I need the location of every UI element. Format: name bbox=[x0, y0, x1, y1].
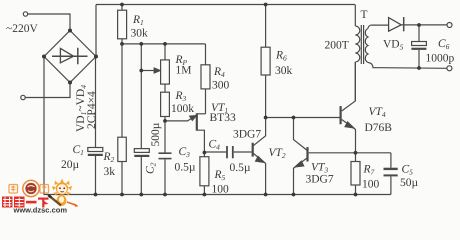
watermark mascot head rays bbox=[52, 179, 72, 196]
capacitor C6 bbox=[418, 25, 420, 41]
resistor R4 bbox=[205, 44, 207, 65]
resistor R6 bbox=[265, 5, 267, 48]
node R6 top bus bbox=[264, 3, 268, 7]
resistor R7 bbox=[355, 153, 357, 162]
wire VT3 base row y152.8 bbox=[309, 152, 391, 154]
wire collector row y117.5 bbox=[266, 117, 341, 119]
node R5 ground bbox=[203, 193, 207, 197]
svg-text:100k: 100k bbox=[171, 103, 194, 115]
node VT2 collector bbox=[264, 116, 268, 120]
wire bridge minus down to bottom bus bbox=[43, 57, 45, 195]
svg-text:3DG7: 3DG7 bbox=[233, 129, 261, 141]
top bus wire bbox=[96, 4, 355, 6]
svg-text:0.5µ: 0.5µ bbox=[175, 162, 196, 174]
resistor R3 bbox=[161, 92, 170, 116]
node bridge DC minus bbox=[42, 55, 46, 59]
svg-text:www.dzsc.com: www.dzsc.com bbox=[13, 206, 68, 215]
wire AC bottom to bridge bbox=[25, 84, 70, 98]
node VT1 B1 R5 C4 bbox=[203, 151, 207, 155]
svg-text:2CP4×4: 2CP4×4 bbox=[86, 91, 98, 129]
watermark mascot pen bbox=[50, 197, 61, 206]
svg-text:D76B: D76B bbox=[365, 122, 393, 134]
svg-text:1000p: 1000p bbox=[426, 53, 455, 65]
terminal out bottom bbox=[447, 66, 452, 71]
potentiometer RP bbox=[164, 44, 166, 60]
node C6 bottom bbox=[417, 66, 421, 70]
node R1 top bus bbox=[120, 3, 124, 7]
node bridge DC plus bbox=[94, 55, 98, 59]
watermark mascot face bbox=[56, 182, 68, 194]
node C6 top bbox=[417, 23, 421, 27]
transistor VT4 D76B bbox=[340, 106, 342, 124]
watermark outlined chars left bbox=[9, 185, 49, 194]
svg-text:0.5µ: 0.5µ bbox=[230, 162, 251, 174]
svg-text:3DG7: 3DG7 bbox=[306, 174, 334, 186]
svg-text:T: T bbox=[361, 9, 368, 21]
capacitor C2 line bbox=[140, 44, 142, 148]
node VT3 collector bbox=[292, 116, 296, 120]
node VT2 emitter ground bbox=[264, 193, 268, 197]
watermark red text wei bbox=[2, 197, 49, 208]
terminal AC bottom bbox=[21, 95, 25, 99]
bridge rectifier VD1-VD4 diamond bbox=[44, 31, 96, 83]
svg-text:100: 100 bbox=[212, 184, 230, 196]
svg-text:~220V: ~220V bbox=[6, 23, 38, 35]
svg-text:50µ: 50µ bbox=[400, 177, 419, 189]
svg-text:BT33: BT33 bbox=[210, 112, 236, 124]
svg-text:20µ: 20µ bbox=[61, 159, 80, 171]
node C2 ground bbox=[139, 193, 143, 197]
secondary top lead bbox=[368, 25, 389, 28]
node R2 ground bbox=[120, 193, 124, 197]
svg-text:1M: 1M bbox=[176, 65, 192, 77]
svg-text:500µ: 500µ bbox=[150, 122, 162, 146]
resistor R1 bbox=[121, 5, 123, 11]
watermark badge bbox=[23, 180, 39, 196]
node C2 top bbox=[139, 42, 143, 46]
watermark mascot body bbox=[57, 195, 67, 206]
svg-text:3k: 3k bbox=[104, 166, 116, 178]
node VT3 emitter ground bbox=[292, 193, 296, 197]
svg-text:30k: 30k bbox=[131, 28, 149, 40]
capacitor C4 bbox=[204, 151, 226, 153]
wire bridge plus up to top bus bbox=[95, 5, 97, 57]
watermark weiku bbox=[2, 179, 79, 215]
node C3 ground bbox=[163, 193, 167, 197]
node C1 ground bbox=[94, 193, 98, 197]
node R3 C3 VT1 emitter bbox=[163, 119, 167, 123]
transformer secondary winding bbox=[365, 29, 368, 63]
transformer core bbox=[361, 25, 363, 64]
terminal out top bbox=[447, 23, 452, 28]
bridge inner diode bbox=[52, 48, 88, 64]
resistor R2 bbox=[121, 44, 123, 137]
resistor R5 bbox=[203, 153, 205, 157]
svg-text:300: 300 bbox=[212, 80, 230, 92]
capacitor C5 bbox=[390, 153, 392, 168]
node RP wiper tap bbox=[139, 69, 143, 73]
secondary bottom lead bbox=[368, 63, 447, 69]
node bridge AC top bbox=[68, 29, 72, 33]
svg-text:100: 100 bbox=[362, 179, 380, 191]
transformer T primary winding bbox=[354, 5, 356, 27]
node VT4 emitter R7 bbox=[354, 151, 358, 155]
node R7 ground bbox=[354, 193, 358, 197]
svg-text:30k: 30k bbox=[275, 65, 293, 77]
wire node row y44 bbox=[122, 43, 206, 45]
diode VD5 bbox=[389, 18, 402, 32]
bottom bus wire bbox=[44, 194, 391, 196]
node R1 bottom bbox=[120, 42, 124, 46]
unijunction transistor VT1 BT33 bbox=[196, 113, 198, 130]
node RP top bbox=[163, 42, 167, 46]
node bridge AC bottom bbox=[68, 81, 72, 85]
watermark dart bbox=[67, 202, 76, 205]
potentiometer RP wiper arrow bbox=[141, 70, 155, 72]
capacitor C3 bbox=[164, 121, 166, 153]
transistor VT2 3DG7 bbox=[252, 143, 254, 157]
transistor VT3 3DG7 bbox=[306, 147, 308, 161]
svg-text:200T: 200T bbox=[325, 40, 349, 52]
terminal AC top bbox=[23, 12, 27, 16]
wire AC top to bridge bbox=[28, 14, 70, 29]
capacitor C1 bbox=[95, 57, 97, 148]
